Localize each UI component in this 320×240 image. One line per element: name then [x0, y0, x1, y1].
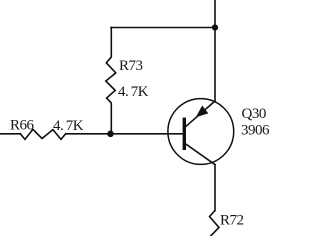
transistor Q30 (PNP 3906)	[168, 99, 234, 165]
svg-text:R72: R72	[220, 212, 244, 228]
wire base node to transistor	[66, 133, 184, 135]
svg-text:3906: 3906	[241, 122, 270, 138]
junction dot top	[212, 24, 218, 30]
resistor R66	[20, 129, 65, 139]
svg-text:4.7K: 4.7K	[53, 118, 84, 134]
svg-text:R66: R66	[10, 118, 35, 134]
resistor R72	[210, 211, 220, 237]
wire collector vertical	[214, 165, 216, 211]
svg-text:4.7K: 4.7K	[118, 84, 149, 100]
svg-text:R73: R73	[119, 58, 143, 74]
wire top rail	[111, 27, 215, 29]
junction dot base node	[107, 131, 114, 138]
svg-text:Q30: Q30	[242, 106, 266, 122]
wire left lead	[0, 133, 21, 135]
wire top vertical (emitter supply)	[214, 0, 216, 102]
resistor R73	[106, 28, 116, 135]
